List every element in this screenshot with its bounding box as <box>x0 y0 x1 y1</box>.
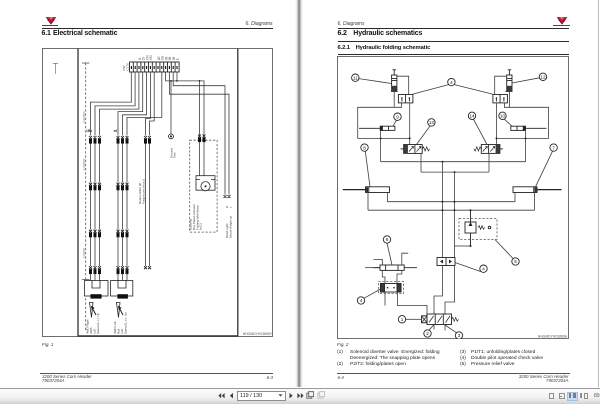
callout 4 center <box>480 265 487 272</box>
svg-text:1x00600: 1x00600 <box>82 247 86 258</box>
svg-text:11: 11 <box>353 75 358 80</box>
pointer 4c <box>455 262 481 271</box>
legend <box>337 349 569 351</box>
pointer 14 <box>473 119 487 145</box>
wire cyl left foot down <box>393 91 395 107</box>
callout 7 <box>550 143 557 150</box>
svg-text:9: 9 <box>396 114 399 119</box>
pointer 1 <box>406 318 422 320</box>
pointer 13 <box>417 125 431 144</box>
callout 11 <box>352 74 359 81</box>
wire branch to ground test point <box>170 80 172 133</box>
switch box terminal bar right <box>91 294 101 298</box>
wire run into switch boxes <box>91 273 128 280</box>
svg-text:7: 7 <box>552 145 555 150</box>
collector line lower <box>368 209 535 211</box>
schematic inner border left <box>77 48 79 336</box>
two page view icon (active) <box>567 392 578 401</box>
wire divider to check valve stubs <box>382 270 402 283</box>
check valve lower dashed box <box>379 281 404 293</box>
relief drain line <box>455 245 471 247</box>
wire cyl left top to block <box>397 76 409 94</box>
wire loop right <box>504 102 548 137</box>
pointer 2 <box>429 324 434 330</box>
wire relay connectors to motor <box>200 141 205 175</box>
wire run group1 down <box>91 143 100 182</box>
flow divider (6) <box>365 265 417 270</box>
strip left label PW C170 <box>122 62 129 70</box>
callout circles <box>352 73 558 339</box>
svg-text:1x009600: 1x009600 <box>82 158 86 170</box>
schematic inner border bottom <box>78 335 238 337</box>
reed light label <box>225 215 232 237</box>
callout 10 <box>499 112 506 119</box>
svg-text:4: 4 <box>360 298 363 303</box>
schematic inner border right <box>237 48 239 336</box>
pointer 10 <box>504 118 512 125</box>
svg-text:1: 1 <box>401 317 404 322</box>
check valve lower (4) <box>381 283 402 292</box>
center vertical P line <box>442 161 444 257</box>
cyl left foot <box>391 90 398 92</box>
wire check valve to diverter <box>385 292 427 319</box>
bus line upper <box>381 160 526 162</box>
svg-text:Speed (L.s.): Up: Speed (L.s.): Up <box>124 311 128 333</box>
actuator motor box <box>196 175 215 190</box>
connector group 3 row 1 <box>144 136 151 143</box>
connector group 1 row 2 <box>89 229 101 236</box>
check valve block left <box>398 94 413 102</box>
svg-text:XM: XM <box>149 55 153 60</box>
actuator label <box>189 203 203 229</box>
switch labels 4WD left <box>113 311 128 333</box>
wire run group1 row2-row3 <box>91 237 100 266</box>
wire cyl right foot down <box>508 91 510 107</box>
connector group labels <box>86 129 117 133</box>
check valve block right <box>493 94 508 102</box>
single page view icon <box>549 393 555 399</box>
svg-text:Test: Test <box>173 152 177 158</box>
callout 3 <box>455 331 462 338</box>
connector group 1 row 1 <box>89 136 101 143</box>
connector group 2 row 1 <box>117 136 129 143</box>
wire run group2 down <box>118 143 127 182</box>
folding cylinder right (7) <box>513 186 562 192</box>
svg-text:5: 5 <box>514 259 517 264</box>
wire bundle strip to connector group 1 <box>91 72 132 136</box>
junction dots loop <box>380 137 527 139</box>
wire pilot left down <box>380 130 382 161</box>
wire run rotary driller pair <box>146 143 150 266</box>
MF logo right page <box>556 16 568 25</box>
ground test point <box>169 134 174 139</box>
svg-text:10: 10 <box>500 113 506 118</box>
last page btn <box>297 393 304 398</box>
connector group 2 row 3 <box>117 266 129 274</box>
pilot check valve left (9) <box>359 126 395 130</box>
diverter port stubs <box>434 324 445 330</box>
cylinder port stubs <box>368 192 535 210</box>
wire cyl right top to block <box>495 76 507 94</box>
prev page btn <box>229 393 234 398</box>
callout 5 <box>512 257 519 264</box>
svg-text:(x21): (x21) <box>199 223 203 230</box>
wire pilot right down <box>525 130 527 161</box>
svg-text:Mount Height (x): Mount Height (x) <box>229 215 233 237</box>
wire strip to relay box connectors <box>166 72 204 137</box>
schematic frame <box>338 56 569 338</box>
pointer 9 <box>393 120 397 126</box>
switch box 4WD left <box>111 280 133 296</box>
history back icon <box>306 391 314 399</box>
continuous view icon <box>559 393 565 399</box>
MF logo left page <box>45 16 57 25</box>
pointer 8 <box>365 151 370 187</box>
svg-text:4: 4 <box>482 266 485 271</box>
svg-text:3: 3 <box>458 333 461 338</box>
wire run group2 row2-row3 <box>118 237 127 266</box>
collector line upper <box>387 200 515 202</box>
center vertical T line <box>454 172 456 257</box>
zoom percent (clipped) <box>594 393 600 399</box>
callout 13 <box>428 118 435 125</box>
margin fold mark <box>53 63 58 74</box>
wire divider feed stubs <box>374 253 409 265</box>
next page btn <box>289 393 294 398</box>
two page with cover icon <box>580 393 583 398</box>
junction dots bus <box>442 160 456 172</box>
right schematic SVG <box>337 56 569 339</box>
harness reference dashed line <box>85 63 87 330</box>
cyl right foot <box>505 90 512 92</box>
wire run group2 mid <box>118 189 127 229</box>
wire pilot cross right <box>497 137 526 139</box>
wire strip to reed switch R <box>173 72 225 195</box>
first page btn <box>218 393 225 398</box>
wire pilot cross left <box>381 137 410 139</box>
ground test label <box>169 147 176 157</box>
svg-text:Speed (L.t.): Up: Speed (L.t.): Up <box>96 312 100 334</box>
rotary driller wire end terminals <box>144 266 151 269</box>
history fwd icon (disabled) <box>317 391 325 399</box>
callout 6 <box>383 235 390 242</box>
svg-text:14: 14 <box>469 113 475 118</box>
svg-text:HHGMDYH23866A: HHGMDYH23866A <box>538 334 568 338</box>
svg-text:8: 8 <box>176 58 180 60</box>
reed switch terminals <box>224 195 231 198</box>
callout 12 <box>539 73 546 80</box>
tiny labels above terminal strip <box>138 55 180 60</box>
relay box connectors <box>198 134 206 141</box>
relay dashed enclosure <box>190 140 217 232</box>
svg-text:12: 12 <box>540 74 546 79</box>
pointer 5 <box>495 239 514 259</box>
cylinder lock right (12) <box>507 69 512 91</box>
svg-text:8: 8 <box>363 145 366 150</box>
terminal strip X1 <box>130 62 180 72</box>
pointer 6 <box>387 243 392 265</box>
pointer 4 to both blocks <box>412 84 495 94</box>
svg-text:6: 6 <box>386 237 389 242</box>
double check valve center (4) <box>437 257 455 265</box>
svg-text:1Bx: 1Bx <box>86 129 92 133</box>
pointer 4b <box>364 289 380 298</box>
callout 8 <box>361 143 368 150</box>
solenoid diverter valve (1) <box>422 314 459 325</box>
pointer 12 <box>512 77 540 82</box>
solenoid valve right (14) <box>474 144 503 153</box>
folding cylinder left (8) <box>343 186 390 192</box>
pressure relief valve <box>465 210 491 246</box>
switch box terminal bar left <box>118 294 128 298</box>
callout 2 <box>424 329 431 336</box>
cylinder lock left (11) <box>392 69 397 91</box>
svg-text:L: L <box>229 206 233 208</box>
pressure relief valve dashed box (5) <box>459 218 497 239</box>
junction dots collectors <box>442 200 472 211</box>
wire loop left <box>358 102 402 137</box>
svg-text:HHGMDYH23865Y: HHGMDYH23865Y <box>243 332 273 336</box>
callout 9 <box>394 113 401 120</box>
pointer 7 <box>536 151 553 187</box>
lever symbol right switch <box>90 302 97 317</box>
wire bundle strip to connector group 2 <box>118 72 143 136</box>
connector group 2 row 2 upper <box>117 182 129 189</box>
terminal strip pin dots <box>131 66 177 69</box>
wire run group1 mid <box>91 189 100 229</box>
callout 4 top <box>448 78 455 85</box>
harness line tick labels <box>82 111 86 258</box>
wire block left right-port down <box>409 102 411 144</box>
rotary driller label <box>138 178 145 203</box>
wire bundle strip to connector group 3 <box>146 72 151 136</box>
svg-text:C170: C170 <box>126 62 130 70</box>
connector group 2 row 2 <box>117 229 129 236</box>
pilot check valve right (10) <box>511 126 547 130</box>
reed switch labels R L <box>225 205 233 208</box>
switch box 4WD right <box>85 280 109 296</box>
schematic outer frame <box>43 48 273 336</box>
switch labels 4WD right <box>86 312 101 334</box>
svg-text:x6: x6 <box>114 129 118 133</box>
svg-text:2: 2 <box>426 331 429 336</box>
center verticals below component <box>434 265 443 314</box>
actuator motor circle <box>201 181 210 190</box>
svg-text:13: 13 <box>429 120 435 125</box>
callout 4 left <box>357 296 364 303</box>
svg-text:1x009800: 1x009800 <box>82 111 86 123</box>
pointer 11 <box>359 78 392 83</box>
right edge line <box>598 0 599 387</box>
bus line lower <box>421 153 489 172</box>
solenoid valve left (13) <box>401 144 430 153</box>
pointer 3 <box>445 325 457 333</box>
left schematic SVG <box>42 48 273 337</box>
connector group 1 row 2 upper <box>89 182 101 189</box>
callout 14 <box>468 112 475 119</box>
svg-text:4: 4 <box>450 79 453 84</box>
svg-text:Forgot corn (Aux.t): Forgot corn (Aux.t) <box>142 178 146 203</box>
page number box <box>237 391 286 402</box>
wire strip to reed switch L <box>169 72 229 195</box>
wire block right left-port down <box>496 102 498 144</box>
connector group 1 row 3 <box>89 266 101 274</box>
callout 1 <box>398 315 405 322</box>
lever symbol left switch <box>117 302 124 317</box>
